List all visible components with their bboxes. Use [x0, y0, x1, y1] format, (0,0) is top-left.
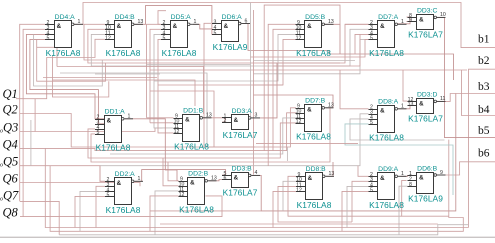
wire mesh c2 [286, 147, 288, 161]
svg-text:DD3:B: DD3:B [232, 165, 252, 172]
wire Q3 bus [20, 128, 163, 132]
wire DD7:A out-DD3:C [398, 17, 411, 24]
wire DD4:A.3 lead [23, 29, 45, 216]
svg-text:13: 13 [206, 113, 212, 119]
svg-text:K176LA8: K176LA8 [369, 48, 404, 58]
wire DD8:B.10 lead [283, 181, 296, 211]
svg-text:K176LA8: K176LA8 [106, 205, 141, 215]
wire mesh L2 [34, 99, 36, 132]
wire DD4:B out to DD6:A.5 [135, 6, 212, 35]
svg-text:13: 13 [329, 171, 335, 177]
svg-text:5: 5 [370, 35, 373, 41]
svg-text:13: 13 [408, 101, 414, 107]
gate DD1:B (K176LA8) [174, 107, 212, 151]
svg-text:1: 1 [78, 19, 81, 25]
wire DD3:C in join [407, 17, 411, 21]
wire long y70 [150, 69, 467, 71]
wire DD8:B.9 lead [288, 176, 402, 216]
wire DD8:A.4 lead [350, 119, 445, 140]
svg-text:13: 13 [138, 19, 144, 25]
svg-text:5: 5 [107, 192, 110, 198]
svg-text:K176LA8: K176LA8 [296, 48, 331, 58]
net b2 riser [469, 69, 495, 227]
wire DD4:A.4 lead [26, 34, 105, 118]
wire Q4 bus [20, 148, 130, 150]
wire DD7:A.5 lead [254, 39, 369, 73]
svg-text:&: & [107, 117, 112, 124]
svg-text:1: 1 [128, 114, 131, 120]
svg-text:DD6:B: DD6:B [417, 165, 437, 172]
wire mesh a6 [254, 84, 284, 86]
wire DD2:A.3 lead [96, 186, 105, 227]
svg-text:&: & [117, 23, 122, 30]
wire DD5:B.12 lead [158, 39, 296, 85]
svg-text:K176LA8: K176LA8 [106, 48, 141, 58]
svg-text:1: 1 [138, 176, 141, 182]
svg-text:12: 12 [296, 187, 302, 193]
wire DD4:B.11 lead [91, 29, 368, 66]
wire DD8:B.11 lead [278, 186, 352, 222]
net b6: DD6:B out to b6 [437, 162, 495, 175]
wire long y74 [95, 73, 160, 75]
svg-text:DD1:B: DD1:B [183, 107, 203, 114]
svg-text:DD6:A: DD6:A [222, 14, 242, 21]
gate DD3:B (K176LA7) [222, 165, 260, 197]
svg-text:6: 6 [224, 175, 227, 181]
wire DD5:A.4 lead [154, 34, 174, 128]
svg-text:&: & [185, 116, 190, 123]
wire mesh L1 [30, 120, 32, 166]
svg-text:1: 1 [401, 171, 404, 177]
svg-text:Q8: Q8 [3, 206, 19, 220]
wire bottom 3 [59, 225, 468, 235]
svg-text:DD3:A: DD3:A [232, 108, 252, 115]
svg-text:5: 5 [97, 130, 100, 136]
wire DD1:A.5 lead [91, 134, 145, 162]
wire mesh a4 [268, 62, 340, 64]
wire DD9:A out to DD6:B.1 [401, 175, 408, 176]
wire DD9:A.2 lead [358, 166, 369, 177]
svg-text:1: 1 [401, 19, 404, 25]
svg-text:K176LA8: K176LA8 [174, 142, 209, 152]
svg-text:&: & [307, 23, 312, 30]
svg-text:Q6: Q6 [3, 172, 19, 186]
svg-text:b4: b4 [478, 104, 490, 116]
gate DD6:A (K176LA9) [212, 14, 250, 52]
svg-text:&: & [173, 23, 178, 30]
svg-text:oQ7: oQ7 [0, 189, 19, 203]
wire DD7:A.4 lead [355, 34, 369, 54]
svg-text:&: & [308, 175, 313, 182]
wire DD9:A.3 lead [352, 181, 369, 222]
svg-text:DD2:B: DD2:B [188, 170, 208, 177]
svg-text:Q1: Q1 [3, 87, 18, 101]
svg-text:5: 5 [214, 31, 217, 37]
wire mesh a1 [53, 55, 109, 97]
wire DD8:B.12 lead [273, 191, 296, 227]
net b1: DD4:A out to b1 [73, 3, 495, 48]
svg-text:DD5:B: DD5:B [305, 14, 325, 21]
svg-text:K176LA8: K176LA8 [162, 48, 197, 58]
wire mesh a3 [254, 60, 356, 62]
svg-text:5: 5 [163, 35, 166, 41]
gate DD5:A (K176LA8) [161, 14, 199, 58]
wire chA w2 [60, 73, 207, 147]
gate DD5:B (K176LA8) [296, 14, 334, 58]
svg-text:DD9:A: DD9:A [378, 166, 398, 173]
wire DD4:B.9 lead [84, 24, 251, 60]
wire mesh m1 [150, 91, 214, 147]
svg-text:K176LA7: K176LA7 [408, 114, 443, 124]
wire DD2:B.10 lead [163, 158, 179, 186]
svg-text:8: 8 [409, 182, 412, 188]
svg-text:&: & [57, 23, 62, 30]
svg-text:4: 4 [255, 170, 258, 176]
wire DD8:A.5 lead [345, 124, 453, 195]
gate DD3:C (K176LA7) [408, 7, 446, 39]
svg-text:K176LA9: K176LA9 [408, 194, 443, 204]
wire DD5:A.2 lead [147, 24, 162, 118]
wire DD3:D.12 lead [403, 70, 408, 101]
svg-text:9: 9 [440, 170, 443, 176]
svg-text:1: 1 [401, 104, 404, 110]
wire DD8:A.2 lead [340, 70, 369, 109]
net b3: DD3:D out to b3 [437, 94, 495, 102]
wire DD5:B out [324, 24, 340, 54]
svg-text:K176LA7: K176LA7 [223, 188, 258, 198]
wire mesh m2 [147, 64, 251, 66]
svg-text:Q2: Q2 [3, 103, 18, 117]
wire chB 3 [110, 118, 296, 154]
wire Q6 bus [20, 183, 140, 187]
svg-text:DD1:A: DD1:A [105, 108, 125, 115]
wire Q7 bus [20, 201, 59, 234]
svg-text:b3: b3 [478, 81, 490, 93]
svg-text:K176LA8: K176LA8 [46, 48, 81, 58]
wire chA w3 [53, 80, 196, 106]
wire DD9:A.4 lead [347, 186, 369, 227]
svg-text:K176LA9: K176LA9 [213, 42, 248, 52]
wire DD6:A out [244, 24, 454, 81]
wire DD2:A.4 lead [80, 191, 105, 231]
svg-text:DD2:A: DD2:A [115, 171, 135, 178]
wire DD5:A.2 up bracket [158, 11, 166, 25]
wire chA w1 [57, 67, 204, 115]
svg-text:K176LA8: K176LA8 [297, 200, 332, 210]
svg-text:oQ5: oQ5 [0, 155, 18, 169]
wire mesh a5 [273, 34, 360, 66]
svg-text:b6: b6 [478, 148, 490, 160]
svg-text:K176LA8: K176LA8 [96, 143, 131, 153]
wire DD5:B.11 lead [154, 34, 296, 81]
svg-text:K176LA8: K176LA8 [369, 133, 404, 143]
wire DD2:A.5 lead [75, 196, 105, 227]
gate DD7:A (K176LA8) [369, 14, 407, 58]
wire DD2:B.11 lead [155, 191, 179, 235]
svg-text:&: & [307, 106, 312, 113]
svg-text:DD7:A: DD7:A [378, 14, 398, 21]
svg-text:6: 6 [245, 18, 248, 24]
svg-text:&: & [419, 174, 424, 181]
wire chB 6 [100, 114, 369, 166]
svg-text:DD8:A: DD8:A [378, 98, 398, 105]
svg-text:3: 3 [255, 113, 258, 119]
wire DD6:B.8 lead [399, 186, 408, 235]
gate DD7:B (K176LA8) [296, 97, 334, 141]
svg-text:&: & [234, 174, 239, 181]
svg-text:13: 13 [211, 176, 217, 182]
svg-text:b2: b2 [478, 55, 490, 67]
svg-text:DD8:B: DD8:B [306, 166, 326, 173]
wire DD1:A.4 lead [88, 129, 140, 158]
net b4 [462, 70, 495, 116]
wire DD4:A.2 lead [20, 24, 45, 201]
wire vert x253 [253, 10, 255, 175]
wire DD3:C out down to b5 [437, 17, 495, 137]
gate DD3:A (K176LA7) [222, 108, 260, 140]
wire DD6:B.2 lead [402, 180, 449, 216]
svg-text:12: 12 [296, 119, 302, 125]
svg-text:b5: b5 [478, 125, 490, 137]
wire chB 2 [130, 113, 296, 151]
wire bottom 1 [45, 148, 468, 227]
gate DD8:B (K176LA8) [296, 166, 334, 210]
svg-text:DD4:A: DD4:A [55, 14, 75, 21]
wire DD8:A out to DD3:D.13 [398, 106, 410, 109]
svg-text:K176LA8: K176LA8 [369, 200, 404, 210]
svg-text:12: 12 [105, 35, 111, 41]
gate DD9:A (K176LA8) [369, 166, 407, 210]
gate DD1:A (K176LA8) [95, 108, 133, 152]
svg-text:DD3:D: DD3:D [417, 91, 437, 98]
wire mesh c1 [256, 142, 358, 144]
wire DD2:A out to DD3:B.5 [135, 170, 226, 182]
wire DD1:B.10 stubjoin [150, 122, 174, 124]
wire DD5:A.3 lead [150, 29, 161, 123]
wire Q8 bus [20, 196, 222, 217]
wire DD8:B out [326, 162, 333, 176]
wire DD3:A.1 join [222, 117, 225, 119]
svg-text:&: & [419, 16, 424, 23]
wire DD5:A.5 lead [158, 39, 174, 132]
gate DD4:B (K176LA8) [105, 14, 143, 58]
wire DD2:A.2 lead [100, 166, 105, 182]
svg-text:b1: b1 [478, 34, 490, 46]
gate DD3:D (K176LA7) [408, 91, 446, 123]
svg-text:K176LA8: K176LA8 [296, 132, 331, 142]
svg-text:DD5:A: DD5:A [171, 14, 191, 21]
svg-text:&: & [419, 100, 424, 107]
wire bottom 2 wrap b5 [50, 140, 463, 232]
wire DD6:A.3 lead [204, 23, 255, 147]
wire mesh b1 [160, 223, 438, 225]
svg-text:DD7:B: DD7:B [305, 97, 325, 104]
wire Q5 bus [20, 166, 105, 182]
wire DD2:B.9 lead [168, 162, 179, 181]
wire bottom edge [0, 236, 495, 238]
gate DD6:B (K176LA9) [408, 165, 446, 203]
svg-text:1: 1 [194, 19, 197, 25]
svg-text:5: 5 [370, 187, 373, 193]
svg-text:&: & [380, 175, 385, 182]
svg-text:2: 2 [224, 118, 227, 124]
gate DD2:B (K176LA8) [179, 170, 217, 214]
wire U-turn a [34, 34, 103, 86]
svg-text:13: 13 [328, 103, 334, 109]
svg-text:12: 12 [296, 35, 302, 41]
svg-text:&: & [190, 179, 195, 186]
svg-text:11: 11 [440, 96, 445, 102]
wire DD7:A.2 lead [345, 23, 369, 25]
wire DD1:B.9 stubjoin [147, 117, 174, 119]
svg-text:K176LA8: K176LA8 [179, 205, 214, 215]
wire DD2:B out to DD3:B.6 [209, 180, 222, 181]
wire DD4:A.5 lead [30, 39, 105, 123]
svg-text:9: 9 [409, 17, 412, 23]
wire chB 5 [145, 107, 330, 162]
wire y211 extension [150, 210, 261, 212]
wire vert x250 [250, 3, 252, 117]
wire corner x264 [264, 5, 340, 151]
wire DD5:B.9 lead [268, 24, 296, 147]
svg-text:K176LA7: K176LA7 [223, 130, 258, 140]
svg-text:DD4:B: DD4:B [115, 14, 135, 21]
wire DD9:A.5 lead [342, 191, 369, 231]
gate DD2:A (K176LA8) [105, 171, 143, 215]
svg-text:12: 12 [174, 129, 180, 135]
wire chB 1 [110, 108, 296, 147]
wire DD3:B out down to b3 riser [252, 94, 456, 211]
svg-text:10: 10 [440, 12, 446, 18]
wire DD4:B.10 lead [88, 24, 369, 63]
svg-text:&: & [380, 23, 385, 30]
svg-text:12: 12 [179, 192, 185, 198]
wire chA w0 [37, 47, 57, 66]
gate DD8:A (K176LA8) [369, 98, 407, 142]
wire Q2 bus [20, 114, 110, 148]
svg-text:&: & [117, 180, 122, 187]
svg-text:Q4: Q4 [3, 138, 18, 152]
svg-text:&: & [234, 117, 239, 124]
wire DD1:B out to DD3:A [204, 118, 226, 122]
svg-text:oQ3: oQ3 [0, 121, 18, 135]
wire DD3:A out up [252, 63, 277, 118]
wire chB 4 [140, 123, 296, 158]
svg-text:DD3:C: DD3:C [417, 7, 437, 14]
wire Q1 bus [16, 39, 105, 98]
svg-text:5: 5 [370, 120, 373, 126]
wire y77 line [43, 77, 157, 79]
wire DD2:B.12 lead [150, 196, 179, 231]
wire DD5:A out to DD6:A.4 [193, 24, 212, 29]
svg-text:&: & [380, 107, 385, 114]
wire DD5:B.10 lead [273, 29, 296, 150]
wire DD1:A out [125, 119, 179, 181]
wire U-turn b [37, 39, 106, 81]
wire DD7:B out [254, 95, 334, 108]
wire mesh c3 [267, 147, 269, 166]
svg-text:13: 13 [328, 19, 334, 25]
svg-text:&: & [224, 23, 229, 30]
svg-text:K176LA7: K176LA7 [408, 30, 443, 40]
wire mesh a2 [251, 39, 369, 57]
svg-text:5: 5 [47, 35, 50, 41]
gate DD4:A (K176LA8) [45, 14, 83, 58]
